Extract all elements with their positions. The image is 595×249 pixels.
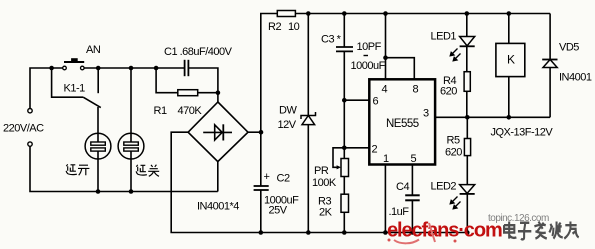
- wire LED1 top lead: [466, 14, 468, 37]
- svg-text:C2: C2: [277, 173, 290, 185]
- svg-text:10PF: 10PF: [357, 41, 382, 53]
- capacitor C4: [389, 181, 420, 218]
- svg-text:470K: 470K: [178, 105, 203, 117]
- svg-text:5: 5: [411, 153, 417, 165]
- wire bridge left to ground rail: [171, 132, 467, 232]
- svg-text:DW: DW: [279, 105, 297, 117]
- wire pin5 to C4: [411, 165, 413, 196]
- svg-text:2: 2: [372, 144, 378, 156]
- node R3 / ground rail: [342, 230, 347, 235]
- wire C4 bottom lead: [411, 201, 413, 233]
- svg-text:C1 .68uF/400V: C1 .68uF/400V: [164, 46, 233, 58]
- svg-text:6: 6: [373, 96, 379, 108]
- svg-text:NE555: NE555: [386, 118, 419, 130]
- wire R1 right lead: [198, 92, 218, 94]
- node +12V rail / LED1: [465, 11, 470, 16]
- svg-text:100K: 100K: [312, 177, 337, 189]
- terminal 220V upper: [28, 109, 32, 113]
- label 延开: [66, 164, 89, 175]
- svg-text:.1uF: .1uF: [389, 206, 410, 218]
- wire K1-1 fixed stub: [97, 68, 99, 93]
- LED1: [431, 31, 475, 61]
- wire AC top rail right segment after C1: [189, 68, 218, 102]
- svg-text:IN4001*4: IN4001*4: [197, 201, 239, 213]
- wire bridge right to C2: [248, 131, 261, 133]
- wire lamp2 bottom lead: [130, 151, 132, 192]
- svg-text:LED2: LED2: [431, 181, 457, 193]
- resistor R5: [445, 135, 471, 159]
- svg-text:C3 *: C3 *: [321, 34, 342, 46]
- wire LED1 to R4: [466, 46, 468, 71]
- wire R1 branch: [156, 68, 178, 93]
- wire R5 top lead: [466, 117, 468, 138]
- node C4 / ground rail: [410, 230, 415, 235]
- wire VD5 lower lead: [549, 68, 551, 118]
- svg-text:LED1: LED1: [431, 31, 457, 43]
- svg-text:8: 8: [413, 84, 419, 96]
- node AC rail / K1-1 branch: [49, 66, 54, 71]
- svg-text:620: 620: [440, 86, 457, 98]
- resistor R2: [268, 11, 300, 34]
- svg-text:elecfans·com: elecfans·com: [387, 220, 502, 242]
- wire pin6: [344, 99, 369, 101]
- node pin2 / PR: [342, 146, 347, 151]
- svg-text:R1: R1: [154, 105, 167, 117]
- wire DW lower lead: [307, 125, 309, 233]
- lamp 延开: [85, 133, 111, 159]
- wire R4 bottom lead: [466, 91, 468, 117]
- potentiometer PR: [312, 159, 349, 190]
- resistor R4: [440, 72, 470, 98]
- capacitor C1: [164, 46, 233, 76]
- resistor R3: [318, 194, 349, 218]
- node +12V rail / relay K: [507, 11, 512, 16]
- wire AC top rail mid segment: [84, 67, 184, 69]
- svg-text:10: 10: [288, 21, 300, 33]
- svg-text:1000uF: 1000uF: [351, 60, 386, 72]
- node DW / ground rail: [306, 230, 311, 235]
- svg-text:PR: PR: [314, 165, 329, 177]
- wire AC top rail left segment: [30, 68, 63, 109]
- node pin1 / ground rail: [383, 230, 388, 235]
- svg-text:12V: 12V: [278, 119, 297, 131]
- svg-text:1: 1: [383, 153, 389, 165]
- wire DW upper lead: [307, 14, 309, 116]
- relay coil K: [496, 43, 525, 76]
- node pin4-pin8 tie: [383, 55, 388, 60]
- node C1-R1 junction: [216, 90, 221, 95]
- svg-text:AN: AN: [86, 44, 101, 56]
- node AC rail / lamp2 branch: [129, 66, 134, 71]
- wire K1-1 blade: [83, 97, 101, 107]
- node +12V rail / DW: [306, 11, 311, 16]
- op IC NE555 U1: [369, 79, 435, 165]
- wire K coil top lead: [508, 14, 510, 44]
- node LED2 / ground rail: [465, 230, 470, 235]
- node pin3 rail / relay K: [507, 115, 512, 120]
- svg-text:IN4001: IN4001: [559, 72, 592, 84]
- svg-text:220V/AC: 220V/AC: [3, 123, 44, 135]
- node AC rail / R1 branch: [154, 66, 159, 71]
- wire lamp2 top lead: [130, 68, 132, 142]
- resistor R1: [154, 90, 203, 117]
- svg-text:R2: R2: [268, 21, 281, 33]
- wire lamp1 top lead: [97, 107, 99, 142]
- wire R5 to LED2: [466, 156, 468, 185]
- wire pin1: [384, 165, 386, 233]
- node bridge DC+ / C2: [259, 130, 264, 135]
- capacitor C2: [254, 171, 299, 217]
- node lamp2 / AC return rail: [129, 189, 134, 194]
- bridge rectifier IN4001*4: [188, 102, 248, 162]
- pushbutton AN: [63, 44, 101, 70]
- svg-text:C4: C4: [396, 181, 409, 193]
- wire pin4 pin8 bracket: [385, 14, 387, 80]
- svg-text:K: K: [507, 53, 515, 67]
- svg-text:2K: 2K: [319, 207, 333, 219]
- svg-text:K1-1: K1-1: [64, 83, 86, 95]
- svg-text:VD5: VD5: [559, 42, 579, 54]
- wire LED2 bottom lead: [466, 194, 468, 233]
- terminal 220V lower: [28, 142, 32, 146]
- diode VD5: [542, 42, 592, 84]
- wire pin2: [344, 147, 369, 149]
- lamp 延关: [118, 133, 144, 159]
- label 延关: [136, 165, 159, 177]
- wire 220V lower lead: [30, 146, 218, 191]
- node pin3 rail / R4-R5: [465, 115, 470, 120]
- wire C3 upper lead: [343, 14, 345, 48]
- wire lamp1 bottom lead: [97, 151, 99, 192]
- watermark 电子发烧友: [504, 222, 579, 240]
- node AC rail / K1-1 stub: [96, 66, 101, 71]
- node +12V rail / C3: [342, 11, 347, 16]
- wire bridge bottom drop: [217, 162, 219, 192]
- wire PR to R3: [343, 177, 345, 195]
- capacitor C3: [321, 34, 386, 73]
- svg-text:25V: 25V: [269, 205, 288, 217]
- wire VD5 upper lead: [549, 14, 551, 60]
- node lamp1 / AC return rail: [96, 189, 101, 194]
- wire C3 lower lead to PR: [343, 51, 345, 158]
- wire K coil bottom lead: [508, 77, 510, 118]
- wire C2 branch lower: [260, 190, 262, 233]
- node +12V rail / pin4-8: [383, 11, 388, 16]
- wire PR wiper: [333, 148, 344, 168]
- wire C2 branch upper: [261, 14, 278, 187]
- node C2 / ground rail: [259, 230, 264, 235]
- wire +12V top rail: [295, 13, 550, 15]
- svg-text:+: +: [264, 171, 270, 183]
- node pin6 / C3: [342, 98, 347, 103]
- svg-text:JQX-13F-12V: JQX-13F-12V: [491, 127, 554, 139]
- svg-text:R5: R5: [447, 135, 460, 147]
- LED2: [431, 181, 475, 209]
- svg-text:4: 4: [382, 84, 388, 96]
- svg-text:3: 3: [423, 108, 429, 120]
- watermark elecfans.com: [387, 220, 502, 244]
- wire K1-1 left branch: [52, 68, 84, 97]
- wire pin3 relay rail: [435, 116, 550, 118]
- wire R3 bottom lead: [343, 212, 345, 232]
- svg-text:620: 620: [445, 147, 462, 159]
- zener DW: [301, 112, 316, 125]
